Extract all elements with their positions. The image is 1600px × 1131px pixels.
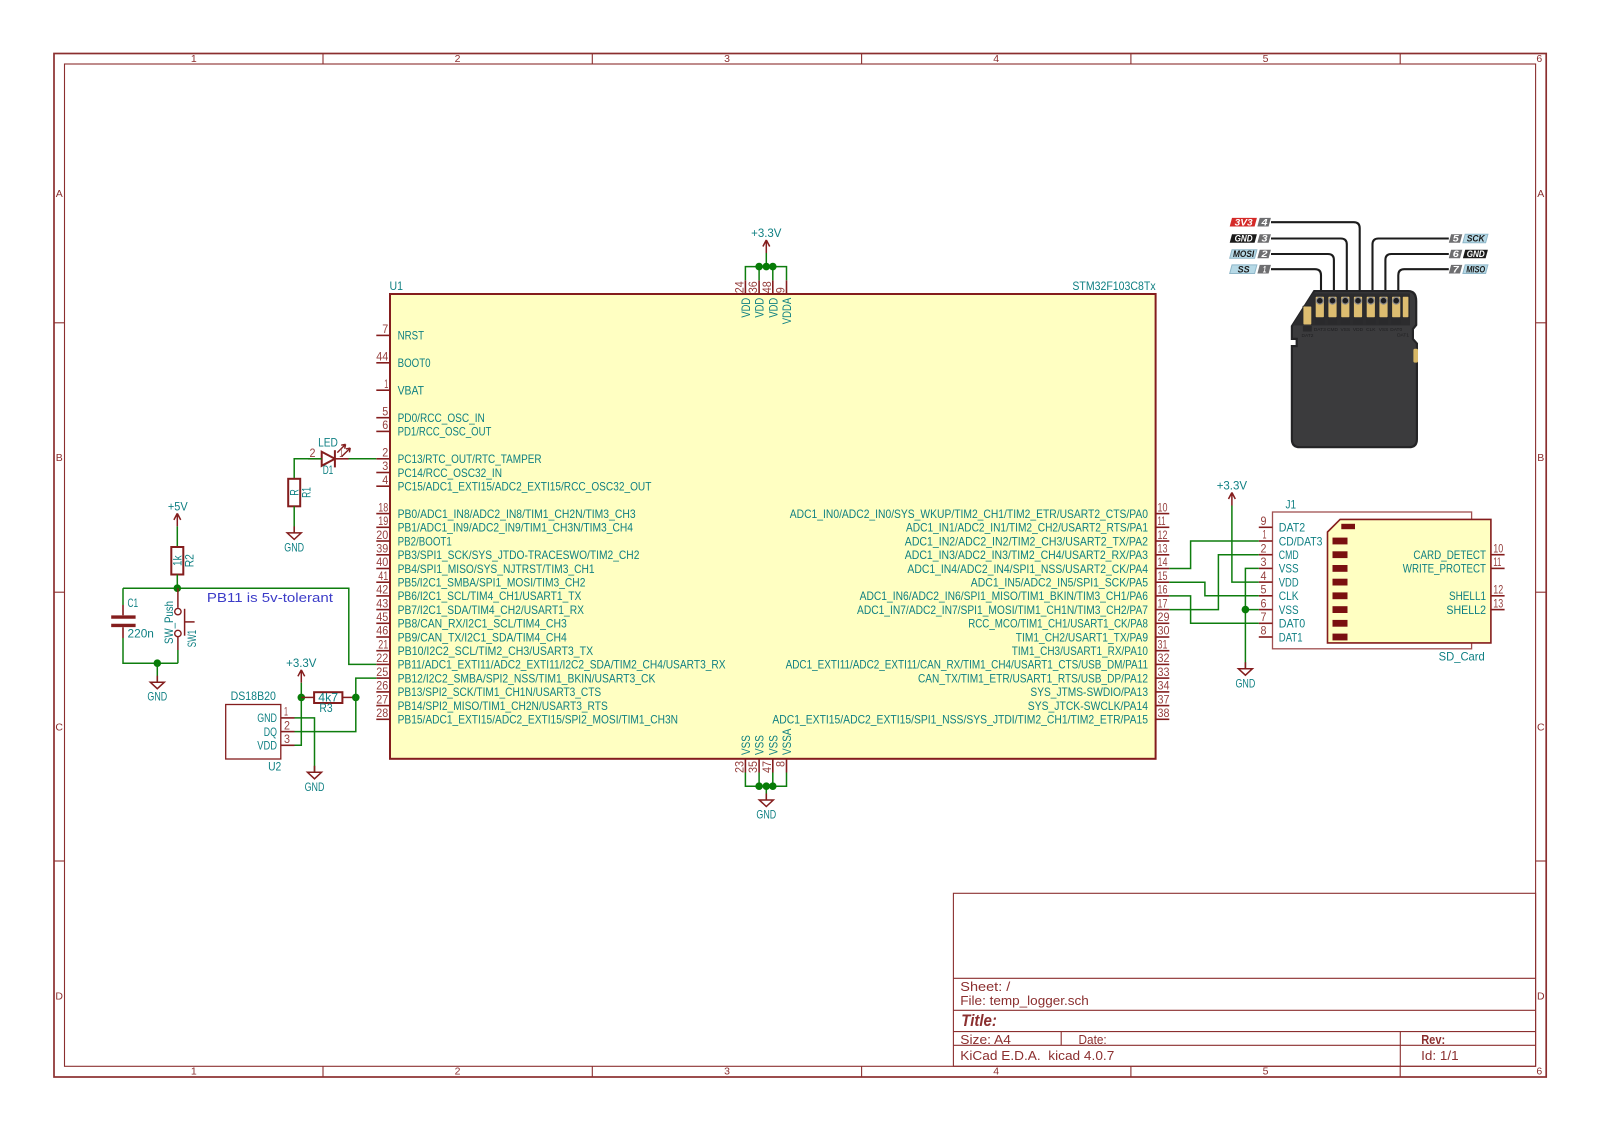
connector J1 outer body [1273, 512, 1472, 649]
ground symbol (J1) [1236, 662, 1256, 690]
svg-text:GND: GND [756, 808, 776, 822]
svg-text:13: 13 [1493, 596, 1503, 610]
svg-text:2: 2 [1261, 541, 1267, 555]
svg-text:9: 9 [774, 287, 788, 293]
svg-text:7: 7 [382, 322, 388, 336]
svg-text:TIM1_CH2/USART1_TX/PA9: TIM1_CH2/USART1_TX/PA9 [1016, 630, 1148, 644]
svg-text:ADC1_IN7/ADC2_IN7/SPI1_MOSI/TI: ADC1_IN7/ADC2_IN7/SPI1_MOSI/TIM1_CH1N/TI… [857, 603, 1148, 617]
svg-text:Id: 1/1: Id: 1/1 [1421, 1049, 1458, 1063]
U1 pin 35 (VSS) bottom [746, 735, 767, 773]
svg-text:PB1/ADC1_IN9/ADC2_IN9/TIM1_CH3: PB1/ADC1_IN9/ADC2_IN9/TIM1_CH3N/TIM3_CH4 [398, 521, 634, 535]
junction GND node left [154, 659, 162, 667]
svg-text:3: 3 [724, 53, 730, 65]
svg-text:2: 2 [1260, 249, 1268, 260]
U1 pin 36 (VDD) top [746, 280, 767, 317]
svg-text:14: 14 [1158, 555, 1168, 569]
ground symbol (U2) [305, 766, 325, 794]
svg-text:B: B [56, 452, 63, 464]
svg-text:2: 2 [455, 1066, 461, 1078]
resistor R3 [301, 691, 356, 715]
svg-text:STM32F103C8Tx: STM32F103C8Tx [1072, 279, 1155, 293]
svg-text:41: 41 [378, 569, 388, 583]
svg-text:Size: A4: Size: A4 [960, 1033, 1011, 1047]
svg-text:D: D [55, 990, 63, 1002]
svg-text:VSS: VSS [1340, 327, 1350, 333]
svg-text:32: 32 [1158, 651, 1170, 665]
svg-text:31: 31 [1158, 637, 1168, 651]
U1 pin 6 (PD1) left [376, 418, 492, 439]
junction VDD bus b [763, 263, 771, 271]
svg-text:DQ: DQ [264, 725, 277, 739]
svg-text:21: 21 [378, 637, 388, 651]
text note PB11 is 5v-tolerant [207, 590, 333, 605]
svg-text:5: 5 [1261, 583, 1267, 597]
junction VDD bus a [755, 263, 763, 271]
svg-text:C: C [1537, 721, 1545, 733]
svg-text:1: 1 [191, 1066, 197, 1078]
U1 pin 19 (PB1) left [376, 514, 633, 535]
J1 value label SD_Card [1439, 650, 1485, 664]
svg-text:CMD: CMD [1327, 327, 1338, 333]
svg-text:PB14/SPI2_MISO/TIM1_CH2N/USART: PB14/SPI2_MISO/TIM1_CH2N/USART3_RTS [398, 699, 608, 713]
junction R3 right [352, 694, 360, 702]
svg-text:8: 8 [1261, 624, 1267, 638]
svg-text:PB9/CAN_TX/I2C1_SDA/TIM4_CH4: PB9/CAN_TX/I2C1_SDA/TIM4_CH4 [398, 630, 567, 644]
svg-text:45: 45 [376, 610, 388, 624]
connector J1 sd-card shape [1328, 519, 1491, 643]
svg-text:SW1: SW1 [185, 630, 199, 647]
svg-text:R3: R3 [319, 701, 332, 715]
svg-text:ADC1_IN0/ADC2_IN0/SYS_WKUP/TIM: ADC1_IN0/ADC2_IN0/SYS_WKUP/TIM2_CH1/TIM2… [790, 507, 1148, 521]
svg-text:SYS_JTCK-SWCLK/PA14: SYS_JTCK-SWCLK/PA14 [1028, 699, 1148, 713]
J1 pin 6 (VSS) [1259, 596, 1299, 617]
svg-text:26: 26 [376, 679, 388, 693]
svg-text:U1: U1 [390, 279, 404, 293]
U1 pin 30 (PA9) right [1016, 624, 1170, 645]
J1 pin 7 (DAT0) [1259, 610, 1306, 631]
svg-text:PB2/BOOT1: PB2/BOOT1 [398, 534, 452, 548]
svg-text:1: 1 [1263, 264, 1266, 275]
svg-text:+3.3V: +3.3V [1217, 479, 1247, 493]
svg-text:DAT1: DAT1 [1397, 332, 1409, 338]
svg-text:6: 6 [1536, 1066, 1542, 1078]
switch SW1 SW_Push [162, 588, 199, 663]
svg-text:MOSI: MOSI [1233, 249, 1254, 260]
junction VSS bus c [769, 782, 777, 790]
svg-text:PB12/I2C2_SMBA/SPI2_NSS/TIM1_B: PB12/I2C2_SMBA/SPI2_NSS/TIM1_BKIN/USART3… [398, 671, 656, 685]
svg-text:44: 44 [376, 350, 388, 364]
U1 pin 33 (PA12) right [918, 665, 1170, 686]
U1 pin 45 (PB8) left [376, 610, 567, 631]
svg-text:VDD: VDD [1279, 575, 1299, 589]
svg-text:ADC1_IN6/ADC2_IN6/SPI1_MISO/TI: ADC1_IN6/ADC2_IN6/SPI1_MISO/TIM1_BKIN/TI… [860, 589, 1149, 603]
svg-text:3: 3 [1262, 234, 1269, 245]
U2 pin 3 (VDD) [257, 732, 294, 753]
U1 pin 48 (VDD) top [760, 280, 781, 317]
capacitor C1 [111, 596, 154, 641]
svg-text:1: 1 [191, 53, 197, 65]
svg-text:VSSA: VSSA [780, 729, 794, 755]
svg-text:SCK: SCK [1467, 234, 1486, 245]
U1 pin 31 (PA10) right [1012, 637, 1170, 658]
svg-text:4: 4 [1261, 569, 1267, 583]
svg-text:220n: 220n [128, 627, 154, 641]
svg-text:10: 10 [1158, 500, 1168, 514]
U2 pin 2 (DQ) [264, 718, 295, 739]
svg-text:39: 39 [376, 542, 388, 556]
wire R2 to PB11 node [176, 575, 178, 589]
svg-text:LED: LED [318, 436, 338, 450]
U1 pin 24 (VDD) top [732, 280, 753, 317]
svg-text:PB15/ADC1_EXTI15/ADC2_EXTI15/S: PB15/ADC1_EXTI15/ADC2_EXTI15/SPI2_MOSI/T… [398, 713, 678, 727]
wire PB11 net horizontal [123, 588, 376, 664]
wire J1 VSS pins to ground [1245, 568, 1258, 668]
svg-text:3: 3 [284, 732, 290, 746]
svg-text:PB4/SPI1_MISO/SYS_NJTRST/TIM3_: PB4/SPI1_MISO/SYS_NJTRST/TIM3_CH1 [398, 562, 595, 576]
U1 pin 10 (PA0) right [790, 500, 1170, 521]
svg-text:GND: GND [284, 541, 304, 555]
svg-text:11: 11 [1158, 514, 1166, 528]
U1 pin 21 (PB10) left [376, 637, 593, 658]
wire C1 bottom [123, 627, 178, 663]
svg-text:CLK: CLK [1366, 327, 1376, 333]
svg-text:VDD: VDD [753, 298, 767, 318]
svg-text:PD0/RCC_OSC_IN: PD0/RCC_OSC_IN [398, 411, 485, 425]
wire +5V to R2 [176, 526, 178, 547]
wire +3.3V to J1 VDD [1232, 506, 1259, 583]
svg-text:Sheet: /: Sheet: / [960, 980, 1011, 994]
svg-text:2: 2 [382, 446, 388, 460]
U1 pin 27 (PB14) left [376, 692, 608, 713]
svg-text:38: 38 [1158, 706, 1170, 720]
svg-text:16: 16 [1158, 583, 1168, 597]
wire VDD bus top [745, 253, 786, 280]
U1 pin 47 (VSS) bottom [760, 735, 781, 773]
resistor R1 [288, 479, 314, 507]
U1 pin 14 (PA4) right [907, 555, 1169, 576]
junction VSS bus b [763, 782, 771, 790]
U1 pin 9 (VDDA) top [774, 280, 795, 324]
U1 pin 7 (NRST) left [376, 322, 424, 343]
svg-text:PB8/CAN_RX/I2C1_SCL/TIM4_CH3: PB8/CAN_RX/I2C1_SCL/TIM4_CH3 [398, 617, 567, 631]
svg-text:ADC1_IN2/ADC2_IN2/TIM2_CH3/USA: ADC1_IN2/ADC2_IN2/TIM2_CH3/USART2_TX/PA2 [905, 534, 1148, 548]
svg-text:28: 28 [376, 706, 388, 720]
svg-text:File: temp_logger.sch: File: temp_logger.sch [960, 994, 1089, 1008]
svg-text:VSS: VSS [1279, 603, 1299, 617]
U1 pin 37 (PA14) right [1028, 692, 1170, 713]
U1 pin 12 (PA2) right [905, 528, 1170, 549]
wire VSS bus bottom [745, 773, 786, 801]
svg-text:U2: U2 [268, 760, 281, 774]
power symbol +3.3V (J1) [1217, 479, 1247, 506]
svg-text:B: B [1537, 452, 1544, 464]
svg-text:CARD_DETECT: CARD_DETECT [1413, 548, 1486, 562]
svg-text:VBAT: VBAT [398, 384, 425, 398]
svg-text:35: 35 [746, 761, 760, 773]
svg-text:+3.3V: +3.3V [286, 656, 316, 670]
U1 pin 39 (PB3) left [376, 542, 639, 563]
svg-text:CD/DAT3: CD/DAT3 [1279, 534, 1323, 548]
svg-text:48: 48 [760, 281, 774, 293]
wire U2 GND to ground [295, 718, 315, 772]
svg-text:DAT2: DAT2 [1279, 521, 1306, 535]
svg-text:1: 1 [339, 446, 343, 460]
svg-text:SHELL2: SHELL2 [1446, 603, 1486, 617]
svg-text:ADC1_EXTI11/ADC2_EXTI11/CAN_RX: ADC1_EXTI11/ADC2_EXTI11/CAN_RX/TIM1_CH4/… [786, 658, 1149, 672]
svg-text:CLK: CLK [1279, 589, 1299, 603]
svg-text:2: 2 [284, 718, 290, 732]
power symbol +3.3V (U2/R3) [286, 656, 316, 683]
svg-text:GND: GND [1467, 249, 1485, 260]
wire to GND left [156, 663, 158, 682]
svg-text:3: 3 [1261, 555, 1267, 569]
svg-text:MISO: MISO [1466, 264, 1485, 275]
svg-text:TIM1_CH3/USART1_RX/PA10: TIM1_CH3/USART1_RX/PA10 [1012, 644, 1148, 658]
svg-text:SD_Card: SD_Card [1439, 650, 1485, 664]
wire PA5 to CLK [1169, 582, 1259, 596]
svg-text:40: 40 [376, 555, 388, 569]
ground symbol (U1 bottom) [756, 794, 776, 822]
U1 pin 16 (PA6) right [860, 583, 1170, 604]
wire PA7 to CMD [1169, 555, 1259, 610]
U1 pin 20 (PB2) left [376, 528, 452, 549]
svg-text:GND: GND [1236, 676, 1256, 690]
svg-text:27: 27 [376, 692, 388, 706]
wire PC13 to D1 [335, 458, 376, 460]
svg-text:D: D [1537, 990, 1545, 1002]
J1 pin 10 (CARD_DETECT) [1413, 541, 1504, 562]
mcu U1 value label STM32F103C8Tx [1072, 279, 1155, 293]
svg-text:GND: GND [257, 711, 277, 725]
svg-text:10: 10 [1493, 541, 1503, 555]
svg-text:PB11/ADC1_EXTI11/ADC2_EXTI11/I: PB11/ADC1_EXTI11/ADC2_EXTI11/I2C2_SDA/TI… [398, 658, 726, 672]
svg-text:D1: D1 [323, 463, 334, 477]
svg-text:29: 29 [1158, 610, 1170, 624]
J1 pin 9 (DAT2) [1259, 514, 1306, 535]
svg-text:+3.3V: +3.3V [751, 226, 781, 240]
svg-text:3: 3 [382, 459, 388, 473]
svg-text:VDD: VDD [257, 739, 277, 753]
svg-text:25: 25 [376, 665, 388, 679]
svg-text:12: 12 [1158, 528, 1168, 542]
svg-text:PB3/SPI1_SCK/SYS_JTDO-TRACESWO: PB3/SPI1_SCK/SYS_JTDO-TRACESWO/TIM2_CH2 [398, 548, 640, 562]
svg-text:23: 23 [732, 761, 746, 773]
U1 pin 25 (PB12) left [376, 665, 655, 686]
svg-text:DAT1: DAT1 [1279, 630, 1303, 644]
svg-text:VSS: VSS [1379, 327, 1389, 333]
mcu U1 body [390, 294, 1156, 759]
svg-text:ADC1_IN1/ADC2_IN1/TIM2_CH2/USA: ADC1_IN1/ADC2_IN1/TIM2_CH2/USART2_RTS/PA… [906, 521, 1148, 535]
svg-text:DAT3: DAT3 [1314, 327, 1326, 333]
J1 pin 4 (VDD) [1259, 569, 1299, 590]
svg-text:PD1/RCC_OSC_OUT: PD1/RCC_OSC_OUT [398, 425, 492, 439]
U1 pin 8 (VSSA) bottom [774, 729, 795, 773]
svg-text:1: 1 [284, 705, 288, 719]
svg-text:15: 15 [1158, 569, 1168, 583]
U1 pin 26 (PB13) left [376, 679, 601, 700]
U1 pin 4 (PC15) left [376, 473, 652, 494]
U1 pin 3 (PC14) left [376, 459, 502, 480]
svg-text:PB11 is 5v-tolerant: PB11 is 5v-tolerant [207, 590, 333, 605]
J1 reference label [1286, 498, 1297, 512]
U1 pin 17 (PA7) right [857, 596, 1169, 617]
U1 pin 28 (PB15) left [376, 706, 678, 727]
svg-text:5: 5 [1263, 53, 1269, 65]
sd-card pinout illustration [1230, 217, 1488, 447]
svg-text:4: 4 [993, 1066, 999, 1078]
U2 pin 1 (GND) [257, 705, 294, 726]
svg-text:12: 12 [1493, 583, 1503, 597]
svg-text:ADC1_IN3/ADC2_IN3/TIM2_CH4/USA: ADC1_IN3/ADC2_IN3/TIM2_CH4/USART2_RX/PA3 [905, 548, 1148, 562]
svg-text:9: 9 [1261, 514, 1267, 528]
svg-text:1: 1 [1263, 528, 1267, 542]
svg-text:VDD: VDD [766, 298, 780, 318]
svg-text:R1: R1 [300, 487, 314, 498]
J1 pin 11 (WRITE_PROTECT) [1403, 555, 1505, 576]
resistor R2 [171, 547, 197, 575]
svg-text:6: 6 [1536, 53, 1542, 65]
svg-text:C: C [55, 721, 63, 733]
U1 pin 42 (PB6) left [376, 583, 581, 604]
svg-text:36: 36 [746, 281, 760, 293]
svg-text:DAT0: DAT0 [1390, 327, 1402, 333]
svg-text:19: 19 [378, 514, 388, 528]
svg-text:Title:: Title: [961, 1011, 997, 1030]
U1 pin 18 (PB0) left [376, 500, 636, 521]
svg-text:DAT0: DAT0 [1279, 617, 1306, 631]
power symbol +5V [168, 500, 188, 527]
svg-text:24: 24 [732, 281, 746, 293]
svg-text:1: 1 [384, 377, 388, 391]
svg-text:VSS: VSS [753, 735, 767, 755]
U1 pin 11 (PA1) right [906, 514, 1169, 535]
U1 pin 29 (PA8) right [968, 610, 1170, 631]
svg-text:5: 5 [1263, 1066, 1269, 1078]
sensor U2 DS18B20 body [226, 689, 282, 774]
title block [953, 893, 1535, 1066]
svg-text:DAT2: DAT2 [1302, 333, 1314, 339]
svg-text:VDD: VDD [1353, 327, 1364, 333]
svg-text:13: 13 [1158, 542, 1168, 556]
svg-text:6: 6 [1453, 249, 1460, 260]
svg-text:22: 22 [376, 651, 388, 665]
svg-text:4: 4 [993, 53, 999, 65]
junction VSS bus a [755, 782, 763, 790]
J1 pin 3 (VSS) [1259, 555, 1299, 576]
J1 card contact pads [1333, 524, 1356, 641]
U1 pin 1 (VBAT) left [376, 377, 424, 398]
svg-text:5: 5 [382, 404, 388, 418]
svg-text:VSS: VSS [766, 735, 780, 755]
junction R3 left [298, 694, 306, 702]
U1 pin 2 (PC13) left [376, 446, 542, 467]
wire D1 to R1 [294, 459, 322, 479]
svg-text:SW_Push: SW_Push [162, 601, 176, 644]
wire R1 to GND [293, 506, 295, 533]
U1 pin 46 (PB9) left [376, 624, 567, 645]
svg-text:PC14/RCC_OSC32_IN: PC14/RCC_OSC32_IN [398, 466, 502, 480]
svg-text:J1: J1 [1286, 498, 1297, 512]
svg-text:2: 2 [310, 446, 316, 460]
svg-text:+5V: +5V [168, 500, 188, 514]
wire PA4 to CD/DAT3 [1169, 541, 1259, 569]
svg-text:43: 43 [376, 596, 388, 610]
svg-text:C1: C1 [128, 596, 139, 610]
svg-text:42: 42 [376, 583, 388, 597]
svg-text:6: 6 [382, 418, 388, 432]
svg-text:SHELL1: SHELL1 [1449, 589, 1486, 603]
svg-text:18: 18 [378, 500, 388, 514]
svg-text:CAN_TX/TIM1_ETR/USART1_RTS/USB: CAN_TX/TIM1_ETR/USART1_RTS/USB_DP/PA12 [918, 671, 1148, 685]
U1 pin 22 (PB11) left [376, 651, 725, 672]
svg-text:46: 46 [376, 624, 388, 638]
svg-text:PB6/I2C1_SCL/TIM4_CH1/USART1_T: PB6/I2C1_SCL/TIM4_CH1/USART1_TX [398, 589, 582, 603]
wire C1 top [122, 588, 124, 615]
ground symbol (C1/SW1) [147, 676, 167, 704]
svg-text:34: 34 [1158, 679, 1170, 693]
svg-text:4: 4 [382, 473, 388, 487]
svg-text:30: 30 [1158, 624, 1170, 638]
wire PA6 to DAT0 [1169, 596, 1259, 623]
U1 pin 34 (PA13) right [1030, 679, 1169, 700]
svg-text:4: 4 [1260, 217, 1268, 228]
svg-text:NRST: NRST [398, 329, 425, 343]
svg-text:Date:: Date: [1079, 1033, 1107, 1047]
svg-text:GND: GND [147, 690, 167, 704]
svg-text:PB0/ADC1_IN8/ADC2_IN8/TIM1_CH2: PB0/ADC1_IN8/ADC2_IN8/TIM1_CH2N/TIM3_CH3 [398, 507, 636, 521]
svg-text:VSS: VSS [1279, 562, 1299, 576]
svg-text:Rev:: Rev: [1421, 1033, 1445, 1047]
U1 pin 13 (PA3) right [905, 542, 1170, 563]
svg-text:VDD: VDD [739, 298, 753, 318]
svg-text:RCC_MCO/TIM1_CH1/USART1_CK/PA8: RCC_MCO/TIM1_CH1/USART1_CK/PA8 [968, 617, 1148, 631]
svg-text:47: 47 [760, 761, 774, 773]
J1 pin 2 (CMD) [1259, 541, 1299, 562]
U1 pin 38 (PA15) right [772, 706, 1169, 727]
svg-text:A: A [56, 188, 63, 200]
svg-text:7: 7 [1261, 610, 1267, 624]
svg-text:ADC1_IN5/ADC2_IN5/SPI1_SCK/PA5: ADC1_IN5/ADC2_IN5/SPI1_SCK/PA5 [971, 576, 1148, 590]
power symbol +3.3V (U1 top) [751, 226, 781, 253]
U1 pin 23 (VSS) bottom [732, 735, 753, 773]
junction J1 VSS [1242, 606, 1250, 614]
svg-text:VSS: VSS [739, 735, 753, 755]
svg-text:R2: R2 [183, 554, 197, 567]
led D1 [308, 436, 350, 477]
svg-text:17: 17 [1158, 596, 1168, 610]
U1 pin 44 (BOOT0) left [376, 350, 431, 371]
svg-text:GND: GND [1235, 234, 1253, 245]
svg-text:VDDA: VDDA [780, 298, 794, 324]
svg-text:PC15/ADC1_EXTI15/ADC2_EXTI15/R: PC15/ADC1_EXTI15/ADC2_EXTI15/RCC_OSC32_O… [398, 480, 652, 494]
svg-text:37: 37 [1158, 692, 1170, 706]
svg-text:33: 33 [1158, 665, 1170, 679]
U1 pin 40 (PB4) left [376, 555, 595, 576]
svg-text:SS: SS [1238, 264, 1251, 275]
svg-text:A: A [1537, 188, 1544, 200]
svg-text:5: 5 [1453, 234, 1460, 245]
svg-text:SYS_JTMS-SWDIO/PA13: SYS_JTMS-SWDIO/PA13 [1030, 685, 1148, 699]
svg-text:PB10/I2C2_SCL/TIM2_CH3/USART3_: PB10/I2C2_SCL/TIM2_CH3/USART3_TX [398, 644, 594, 658]
ground symbol (R1) [284, 526, 304, 554]
U1 pin 41 (PB5) left [376, 569, 585, 590]
svg-text:ADC1_IN4/ADC2_IN4/SPI1_NSS/USA: ADC1_IN4/ADC2_IN4/SPI1_NSS/USART2_CK/PA4 [907, 562, 1148, 576]
J1 pin 1 (CD/DAT3) [1259, 528, 1323, 549]
svg-text:8: 8 [774, 761, 788, 767]
svg-text:7: 7 [1453, 264, 1460, 275]
svg-text:WRITE_PROTECT: WRITE_PROTECT [1403, 562, 1487, 576]
J1 pin 5 (CLK) [1259, 583, 1299, 604]
